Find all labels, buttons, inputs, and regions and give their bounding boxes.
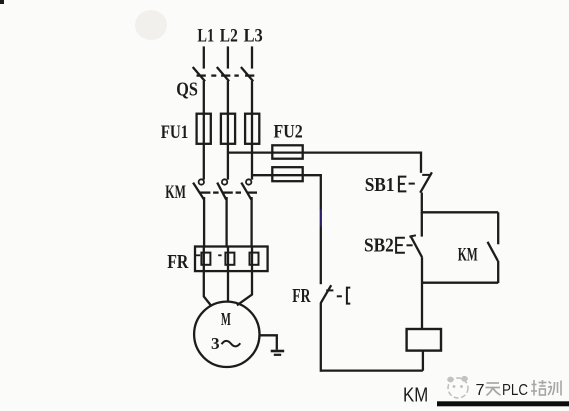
wire FR control upper [320, 227, 322, 285]
svg-text:SB1: SB1 [365, 174, 395, 196]
svg-text:FR: FR [292, 285, 311, 307]
KM linkage dashes [213, 191, 241, 193]
wire FR to motor right [237, 247, 252, 305]
svg-text:QS: QS [176, 78, 198, 100]
motor M circle [194, 302, 259, 367]
wire node line B to control [252, 175, 321, 209]
wire phase B QS to KM [227, 81, 229, 180]
FR heater element 1 [196, 253, 211, 265]
wire phase C QS to KM [251, 81, 253, 180]
wire FR to motor left [204, 247, 212, 306]
switch QS pole 2 [217, 67, 231, 81]
svg-text:KM: KM [458, 245, 478, 266]
wire branch top [422, 211, 498, 213]
contact KM auxiliary [488, 212, 499, 283]
watermark glyph pei [531, 380, 547, 396]
corner mark [0, 0, 4, 4]
black bar [437, 401, 569, 406]
watermark logo [447, 376, 468, 398]
svg-text:FU1: FU1 [161, 122, 189, 143]
svg-text:SB2: SB2 [364, 235, 394, 257]
wire SB2 upper [421, 212, 423, 236]
svg-text:3: 3 [211, 334, 220, 353]
wire branch bottom [422, 282, 498, 284]
wire FR control lower [320, 303, 322, 372]
svg-text:KM: KM [403, 384, 428, 407]
fuse FU1 pole 3 [245, 114, 259, 144]
watermark glyph tian [486, 383, 501, 396]
wire phase A QS to KM [203, 81, 205, 180]
wire phase C KM to FR [250, 197, 252, 248]
fuse FU1 pole 1 [197, 114, 211, 144]
svg-text:L1: L1 [197, 26, 214, 47]
wire L1 stub [203, 46, 205, 68]
wire FR control upper (blue artifact) [320, 209, 322, 226]
wire SB2 to coil [421, 257, 423, 329]
coil KM [407, 329, 441, 351]
wire SB1 to junction [421, 193, 423, 214]
watermark glyph xun [548, 381, 561, 396]
wire L3 stub [251, 46, 253, 68]
svg-text:KM: KM [165, 182, 186, 203]
wire bottom return [321, 369, 423, 371]
switch QS pole 3 [241, 67, 254, 81]
contactor KM main contact pole 2 [217, 179, 233, 199]
pushbutton SB1 [399, 172, 432, 192]
FR heater element 3 [250, 253, 259, 265]
svg-text:PLC: PLC [502, 382, 528, 399]
wire L2 stub [227, 46, 229, 68]
svg-text:L3: L3 [244, 26, 263, 47]
FR heater element 2 [218, 253, 234, 265]
fuse FU1 pole 2 [221, 114, 235, 144]
pushbutton SB2 [396, 235, 422, 257]
thermal contact FR (control) [321, 285, 351, 303]
wire FR to motor centre [227, 247, 229, 302]
svg-text:L2: L2 [220, 26, 238, 47]
motor label 3~ [211, 334, 240, 353]
svg-text:M: M [221, 309, 231, 329]
QS linkage dashes [211, 74, 239, 76]
switch QS pole 1 [193, 67, 206, 81]
wire coil bottom [422, 351, 424, 371]
svg-text:FU2: FU2 [274, 122, 303, 143]
svg-text:FR: FR [167, 251, 189, 273]
contactor KM main contact pole 1 [193, 179, 210, 199]
thermal relay FR box [195, 247, 268, 272]
wire phase A KM to FR [203, 197, 205, 248]
wire node line A to FU2 upper [228, 153, 421, 173]
fuse FU2 lower [272, 167, 302, 181]
ground [260, 335, 285, 355]
contactor KM main contact pole 3 [241, 179, 257, 199]
svg-text:7: 7 [476, 382, 485, 399]
wire phase B KM to FR [225, 197, 227, 248]
fuse FU2 upper [272, 145, 302, 158]
